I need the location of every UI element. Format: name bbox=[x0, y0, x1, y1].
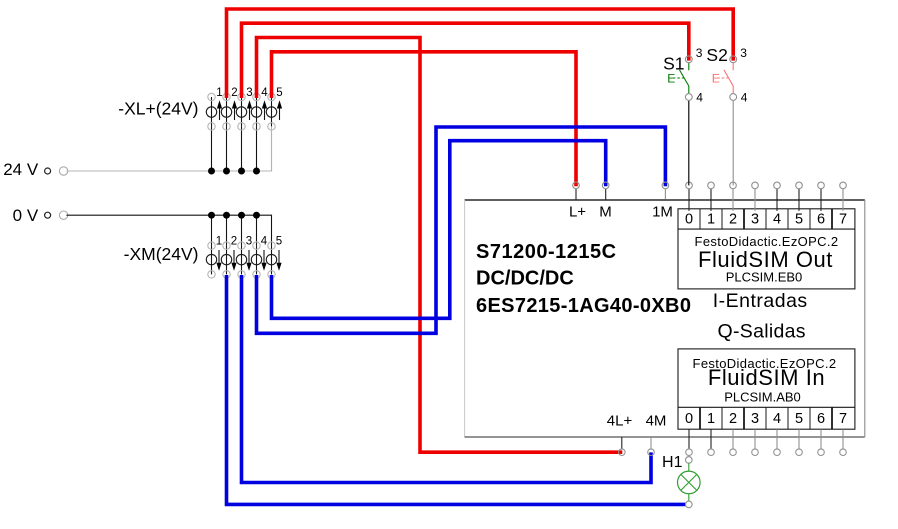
PLC S7-1200 controller box bbox=[465, 200, 865, 437]
svg-text:7: 7 bbox=[839, 212, 847, 228]
terminal -XL+ 5 circles bbox=[268, 93, 275, 100]
svg-text:1: 1 bbox=[216, 87, 222, 99]
svg-text:5: 5 bbox=[276, 235, 282, 247]
FluidSIM In cell row line bbox=[678, 406, 855, 408]
0V source connector circles bbox=[45, 212, 51, 218]
svg-text:2: 2 bbox=[231, 235, 237, 247]
terminal -XM 3 vertical lead bbox=[241, 215, 243, 245]
terminal -XM 4 vertical lead bbox=[256, 215, 258, 245]
24V source connector circles bbox=[45, 168, 51, 174]
FluidSIM Out terminal 2 stub bbox=[732, 189, 734, 211]
terminal -XL+ 4 vertical lead bbox=[256, 97, 258, 126]
wire red -XL+2 to S2 pin3 bbox=[227, 9, 734, 98]
FluidSIM In terminal 4 circle bbox=[774, 449, 781, 456]
terminal -XL+ 4 direction arrow bbox=[262, 100, 267, 108]
svg-text:DC/DC/DC: DC/DC/DC bbox=[476, 268, 574, 290]
svg-text:3: 3 bbox=[740, 46, 747, 60]
FluidSIM Out terminal 3 circle bbox=[752, 182, 759, 189]
terminal -XL+ 2 direction arrow bbox=[232, 100, 237, 108]
terminal -XL+ 2 circles bbox=[223, 93, 230, 100]
FluidSIM In terminal 3 circle bbox=[752, 449, 759, 456]
terminal -XL+ 1 circles bbox=[208, 93, 215, 100]
svg-text:0 V: 0 V bbox=[13, 206, 39, 225]
svg-text:2: 2 bbox=[729, 411, 737, 427]
FluidSIM In cell divider 6 bbox=[809, 407, 811, 429]
FluidSIM In terminal 5 stub bbox=[798, 429, 800, 449]
terminal -XM 4 direction arrow bbox=[263, 250, 265, 263]
junction -XM 2 on 0V rail bbox=[223, 212, 230, 219]
junction -XM 3 on 0V rail bbox=[238, 212, 245, 219]
svg-text:-XL+(24V): -XL+(24V) bbox=[118, 99, 198, 119]
FluidSIM Out terminal 3 stub bbox=[754, 189, 756, 211]
FluidSIM Out cell divider 5 bbox=[787, 209, 789, 229]
svg-text:6: 6 bbox=[817, 212, 825, 228]
terminal -XL+ 1 vertical lead bbox=[211, 97, 213, 126]
svg-text:0: 0 bbox=[685, 212, 693, 228]
terminal -XM 2 circles bbox=[223, 242, 230, 249]
FluidSIM Out terminal 1 stub bbox=[710, 189, 712, 211]
svg-text:PLCSIM.AB0: PLCSIM.AB0 bbox=[724, 390, 801, 405]
terminal -XL+ 3 direction arrow bbox=[247, 100, 252, 108]
FluidSIM In terminal 2 stub bbox=[732, 429, 734, 449]
FluidSIM In terminal 3 stub bbox=[754, 429, 756, 449]
terminal -XM 2 vertical lead bbox=[226, 215, 228, 245]
FluidSIM Out terminal 1 circle bbox=[708, 182, 715, 189]
FluidSIM In cell divider 5 bbox=[787, 407, 789, 429]
FluidSIM Out terminal 4 circle bbox=[774, 182, 781, 189]
switch S1 pin circles bbox=[685, 56, 692, 63]
svg-text:Q-Salidas: Q-Salidas bbox=[718, 321, 806, 343]
junction -XM 4 on 0V rail bbox=[253, 212, 260, 219]
svg-text:4L+: 4L+ bbox=[607, 413, 633, 430]
svg-text:1: 1 bbox=[707, 411, 715, 427]
pin circle 1M bbox=[662, 182, 669, 189]
terminal -XM 5 direction arrow bbox=[278, 250, 280, 263]
terminal -XL+ 2 vertical lead bbox=[226, 97, 228, 126]
FluidSIM Out terminal 2 circle bbox=[730, 182, 737, 189]
svg-text:3: 3 bbox=[751, 411, 759, 427]
terminal -XM 1 vertical lead bbox=[211, 215, 213, 245]
terminal -XL+ 3 circles bbox=[238, 93, 245, 100]
FluidSIM In terminal 6 circle bbox=[818, 449, 825, 456]
FluidSIM Out cell divider 2 bbox=[721, 209, 723, 229]
terminal -XM 4 circles bbox=[253, 242, 260, 249]
FluidSIM In module box bbox=[678, 349, 855, 429]
FluidSIM Out cell divider 6 bbox=[809, 209, 811, 229]
terminal -XM 1 circles bbox=[208, 242, 215, 249]
junction -XL+ 4 on 24V rail bbox=[253, 168, 260, 175]
svg-text:S71200-1215C: S71200-1215C bbox=[476, 241, 617, 263]
pin stub M bbox=[605, 189, 607, 200]
svg-text:S2: S2 bbox=[706, 45, 727, 65]
svg-text:4: 4 bbox=[741, 91, 748, 105]
svg-text:6: 6 bbox=[817, 411, 825, 427]
svg-text:4: 4 bbox=[696, 91, 703, 105]
FluidSIM Out cell divider 1 bbox=[699, 209, 701, 229]
svg-text:4M: 4M bbox=[646, 413, 667, 430]
svg-text:3: 3 bbox=[246, 87, 252, 99]
svg-text:24 V: 24 V bbox=[3, 160, 39, 179]
FluidSIM In terminal 5 circle bbox=[796, 449, 803, 456]
junction -XM 1 on 0V rail bbox=[208, 212, 215, 219]
terminal -XM 2 direction arrow bbox=[233, 250, 235, 263]
svg-text:5: 5 bbox=[795, 212, 803, 228]
FluidSIM In terminal 7 stub bbox=[842, 429, 844, 449]
svg-text:1: 1 bbox=[216, 235, 222, 247]
pin circle 4L+ bbox=[619, 449, 626, 456]
FluidSIM In terminal 0 stub bbox=[688, 429, 690, 449]
wire 0V rail bbox=[66, 215, 271, 245]
svg-text:5: 5 bbox=[276, 87, 282, 99]
terminal -XL+ 1 direction arrow bbox=[217, 100, 222, 108]
FluidSIM Out cell row line bbox=[678, 228, 855, 230]
switch S2 pin circles bbox=[730, 56, 737, 63]
svg-text:-XM(24V): -XM(24V) bbox=[124, 244, 199, 264]
wire red -XL+3 to S1 pin3 bbox=[242, 23, 689, 98]
wire blue -XM5 to PLC M bbox=[272, 141, 606, 319]
lamp H1 bottom pin circle bbox=[686, 501, 693, 508]
terminal -XM 3 circles bbox=[238, 242, 245, 249]
terminal -XL+ 5 direction arrow bbox=[277, 100, 282, 108]
lamp H1 top pin circle bbox=[686, 457, 693, 464]
svg-text:3: 3 bbox=[751, 212, 759, 228]
FluidSIM In terminal 4 stub bbox=[776, 429, 778, 449]
lamp H1 bottom lead bbox=[688, 494, 690, 501]
FluidSIM Out cell divider 3 bbox=[743, 209, 745, 229]
FluidSIM Out module box bbox=[678, 209, 855, 289]
junction -XL+ 2 on 24V rail bbox=[223, 168, 230, 175]
junction -XL+ 1 on 24V rail bbox=[208, 168, 215, 175]
pin circle M bbox=[602, 182, 609, 189]
junction -XL+ 3 on 24V rail bbox=[238, 168, 245, 175]
FluidSIM In cell divider 1 bbox=[699, 407, 701, 429]
wire red -XL+4 to PLC 4L+ bbox=[257, 38, 623, 453]
svg-text:0: 0 bbox=[685, 411, 693, 427]
switch S2 contact lever (not actuated) bbox=[732, 63, 734, 71]
svg-text:5: 5 bbox=[795, 411, 803, 427]
terminal -XM 5 circles bbox=[268, 242, 275, 249]
svg-text:H1: H1 bbox=[662, 454, 683, 471]
wire S2 pin4 to FluidSIM Out 2 bbox=[732, 100, 734, 185]
FluidSIM In terminal 7 circle bbox=[840, 449, 847, 456]
svg-text:I-Entradas: I-Entradas bbox=[713, 290, 808, 312]
terminal -XL+ 3 vertical lead bbox=[241, 97, 243, 126]
svg-text:L+: L+ bbox=[569, 204, 586, 221]
svg-text:6ES7215-1AG40-0XB0: 6ES7215-1AG40-0XB0 bbox=[476, 295, 691, 317]
svg-text:FluidSIM In: FluidSIM In bbox=[708, 365, 825, 390]
lamp H1 top lead bbox=[688, 463, 690, 471]
svg-text:4: 4 bbox=[261, 87, 268, 99]
svg-text:PLCSIM.EB0: PLCSIM.EB0 bbox=[726, 270, 803, 285]
svg-text:FluidSIM Out: FluidSIM Out bbox=[698, 247, 833, 272]
pin circle L+ bbox=[573, 182, 580, 189]
wire red -XL+5 to PLC L+ bbox=[272, 52, 577, 186]
svg-text:3: 3 bbox=[246, 235, 252, 247]
FluidSIM In cell divider 2 bbox=[721, 407, 723, 429]
lamp H1 body bbox=[678, 471, 701, 494]
wire blue -XM2 to lamp H1 bottom bbox=[227, 275, 686, 504]
FluidSIM Out terminal 7 stub bbox=[842, 189, 844, 211]
pin circle 4M bbox=[648, 449, 655, 456]
svg-text:1M: 1M bbox=[652, 204, 673, 221]
FluidSIM Out terminal 5 stub bbox=[798, 189, 800, 211]
FluidSIM In terminal 0 circle bbox=[686, 449, 693, 456]
terminal -XM 5 vertical lead bbox=[271, 246, 273, 275]
terminal -XL+ 4 circles bbox=[253, 93, 260, 100]
svg-text:2: 2 bbox=[231, 87, 237, 99]
pin stub 1M bbox=[664, 189, 666, 200]
pin stub 4L+ bbox=[621, 437, 623, 449]
FluidSIM In cell divider 4 bbox=[765, 407, 767, 429]
FluidSIM Out terminal 6 circle bbox=[818, 182, 825, 189]
FluidSIM In cell divider 3 bbox=[743, 407, 745, 429]
terminal -XL+ 5 vertical lead bbox=[271, 97, 273, 126]
terminal -XM 1 direction arrow bbox=[218, 250, 220, 263]
svg-text:2: 2 bbox=[729, 212, 737, 228]
svg-text:M: M bbox=[599, 204, 612, 221]
FluidSIM In terminal 1 circle bbox=[708, 449, 715, 456]
pin stub L+ bbox=[575, 189, 577, 200]
FluidSIM Out terminal 0 stub bbox=[688, 189, 690, 211]
FluidSIM In cell divider 7 bbox=[831, 407, 833, 429]
FluidSIM Out terminal 4 stub bbox=[776, 189, 778, 211]
wire blue -XM4 to PLC 1M bbox=[257, 127, 666, 333]
FluidSIM In terminal 1 stub bbox=[710, 429, 712, 449]
svg-text:3: 3 bbox=[696, 46, 703, 60]
FluidSIM Out terminal 7 circle bbox=[840, 182, 847, 189]
FluidSIM In terminal 2 circle bbox=[730, 449, 737, 456]
FluidSIM In terminal 6 stub bbox=[820, 429, 822, 449]
FluidSIM Out terminal 5 circle bbox=[796, 182, 803, 189]
svg-text:4: 4 bbox=[773, 411, 781, 427]
svg-text:4: 4 bbox=[773, 212, 781, 228]
svg-text:S1: S1 bbox=[663, 53, 684, 73]
wire 24V rail (gray) bbox=[66, 130, 271, 171]
pin stub 4M bbox=[650, 437, 652, 449]
wire blue -XM3 to PLC 4M bbox=[242, 275, 652, 483]
FluidSIM Out cell divider 7 bbox=[831, 209, 833, 229]
svg-text:1: 1 bbox=[707, 212, 715, 228]
switch S1 contact lever (actuated) bbox=[688, 63, 690, 71]
FluidSIM Out terminal 0 circle bbox=[686, 182, 693, 189]
wire S1 pin4 to FluidSIM Out 0 bbox=[688, 100, 690, 185]
svg-text:7: 7 bbox=[839, 411, 847, 427]
FluidSIM Out terminal 6 stub bbox=[820, 189, 822, 211]
FluidSIM Out cell divider 4 bbox=[765, 209, 767, 229]
svg-text:4: 4 bbox=[261, 235, 268, 247]
terminal -XM 3 direction arrow bbox=[248, 250, 250, 263]
